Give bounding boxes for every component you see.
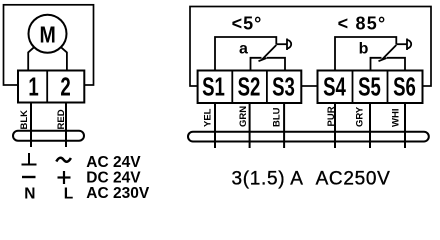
wire S1 down (yellow lead) xyxy=(214,103,216,148)
cable sheath bus (right) xyxy=(188,132,429,142)
svg-text:GRY: GRY xyxy=(355,106,366,127)
wire S6 down (white lead) xyxy=(404,103,406,148)
wire S4 down (purple lead) xyxy=(334,103,336,148)
motor M1 circle xyxy=(29,15,67,53)
svg-text:2: 2 xyxy=(60,73,70,102)
switch a common wire from S1 xyxy=(215,37,276,71)
svg-text:BLU: BLU xyxy=(272,107,283,127)
switch a cam actuator xyxy=(276,43,287,45)
auxiliary switch enclosure box (right) xyxy=(190,7,431,87)
wire terminal 2 down (red lead) xyxy=(65,103,67,148)
svg-text:S5: S5 xyxy=(358,73,381,102)
svg-text:1: 1 xyxy=(28,73,38,102)
svg-text:BLK: BLK xyxy=(19,110,30,130)
switch b blade xyxy=(382,45,396,60)
terminal block S4-S6 xyxy=(318,71,423,104)
switch b contact tick xyxy=(379,58,387,61)
switch b common wire from S4 xyxy=(335,37,396,71)
ground / common symbol xyxy=(28,153,30,165)
svg-text:L: L xyxy=(64,186,73,202)
svg-text:a: a xyxy=(239,41,248,58)
svg-text:AC 230V: AC 230V xyxy=(86,185,150,201)
wire terminal 1 down (black lead) xyxy=(30,103,32,148)
switch b fixed contacts bracket S5-S6 xyxy=(371,58,382,71)
svg-text:WHI: WHI xyxy=(391,109,402,127)
wire S2 down (green lead) xyxy=(249,103,251,148)
svg-text:S6: S6 xyxy=(393,73,416,102)
svg-text:S1: S1 xyxy=(202,73,225,102)
wire motor to terminal 1 xyxy=(28,47,34,70)
svg-text:N: N xyxy=(24,186,35,202)
DC plus symbol xyxy=(58,176,71,178)
svg-text:S4: S4 xyxy=(323,73,346,102)
switch a contact tick xyxy=(259,58,267,61)
svg-text:S2: S2 xyxy=(238,73,261,102)
svg-text:3(1.5) A AC250V: 3(1.5) A AC250V xyxy=(231,168,390,189)
svg-text:S3: S3 xyxy=(272,73,295,102)
AC tilde symbol xyxy=(56,158,71,162)
DC minus symbol xyxy=(22,176,36,178)
switch a blade xyxy=(262,45,276,60)
switch b cam actuator xyxy=(396,43,407,45)
wire S5 down (grey lead) xyxy=(369,103,371,148)
svg-text:YEL: YEL xyxy=(203,108,214,127)
wire S3 down (blue lead) xyxy=(283,103,285,148)
svg-text:b: b xyxy=(359,41,369,58)
svg-text:PUR: PUR xyxy=(326,106,337,126)
svg-text:<5°: <5° xyxy=(232,14,263,34)
switch a fixed contacts bracket S2-S3 xyxy=(251,58,262,71)
svg-text:< 85°: < 85° xyxy=(338,14,387,34)
wire motor to terminal 2 xyxy=(61,47,67,70)
svg-text:GRN: GRN xyxy=(238,106,249,127)
actuator enclosure box (left) xyxy=(4,5,94,85)
svg-text:DC 24V: DC 24V xyxy=(86,169,141,186)
terminal block S1-S3 xyxy=(198,71,302,104)
cable sheath bus (left) xyxy=(13,131,84,141)
terminal block 1-2 xyxy=(18,71,84,103)
svg-text:M: M xyxy=(40,22,56,48)
svg-text:RED: RED xyxy=(56,109,67,129)
